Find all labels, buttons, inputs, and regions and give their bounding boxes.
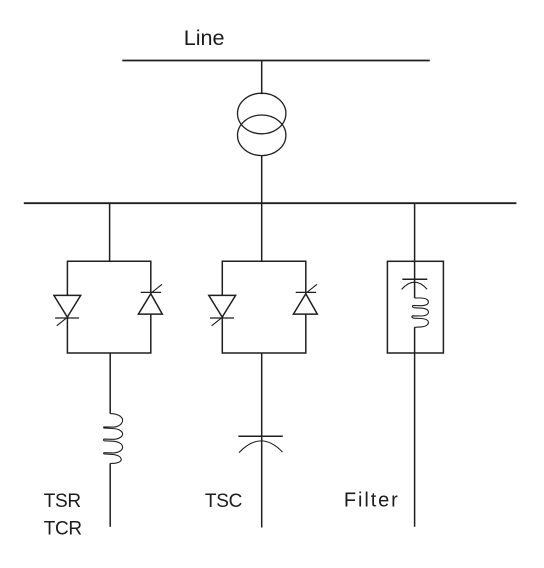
thyristor V2 (right, conducting up) of TCR valve — [138, 284, 162, 314]
thyristor valve enclosure (TSR/TCR branch) — [67, 261, 150, 353]
thyristor V4 (right, conducting up) of TSC valve — [293, 284, 317, 314]
wire: filter coil to box bottom and branch end — [414, 327, 416, 527]
svg-text:TCR: TCR — [44, 518, 82, 539]
wire: line bus to transformer — [261, 61, 263, 95]
wire: SVC bus to TSC valve box — [261, 203, 263, 261]
wire: TSC valve box to capacitor — [261, 353, 263, 528]
capacitor: filter capacitor (curved plate) — [402, 282, 428, 289]
transformer T1 secondary winding — [238, 115, 286, 156]
inductor: TCR phase reactor coil — [104, 414, 123, 464]
wire: top transmission line bus — [122, 60, 430, 62]
svg-text:Filter: Filter — [344, 490, 400, 512]
thyristor V3 (left, conducting down) of TSC valve — [209, 295, 236, 325]
wire: TCR reactor to branch end — [109, 463, 111, 527]
svg-text:TSR: TSR — [44, 491, 81, 512]
wire: SVC bus to TCR valve box — [109, 203, 111, 261]
wire: filter box top to filter capacitor — [414, 261, 416, 298]
harmonic filter enclosure box — [387, 261, 443, 353]
wire: TCR valve box to reactor — [109, 353, 111, 414]
capacitor: TSC capacitor bank (curved plate) — [239, 441, 283, 453]
svg-text:Line: Line — [184, 25, 225, 50]
thyristor V1 (left, conducting down) of TCR valve — [54, 295, 81, 325]
wire: SVC bus to harmonic filter — [414, 203, 416, 261]
capacitor: filter capacitor (flat plate) — [402, 278, 427, 280]
transformer T1 primary winding — [238, 93, 286, 134]
wire: SVC bus (main horizontal busbar) — [24, 202, 517, 204]
inductor: filter reactor coil — [412, 298, 429, 327]
thyristor valve enclosure (TSC branch) — [222, 261, 305, 353]
wire: transformer to SVC bus — [261, 155, 263, 203]
svg-text:TSC: TSC — [205, 491, 242, 512]
capacitor: TSC capacitor bank (flat plate) — [238, 435, 282, 437]
